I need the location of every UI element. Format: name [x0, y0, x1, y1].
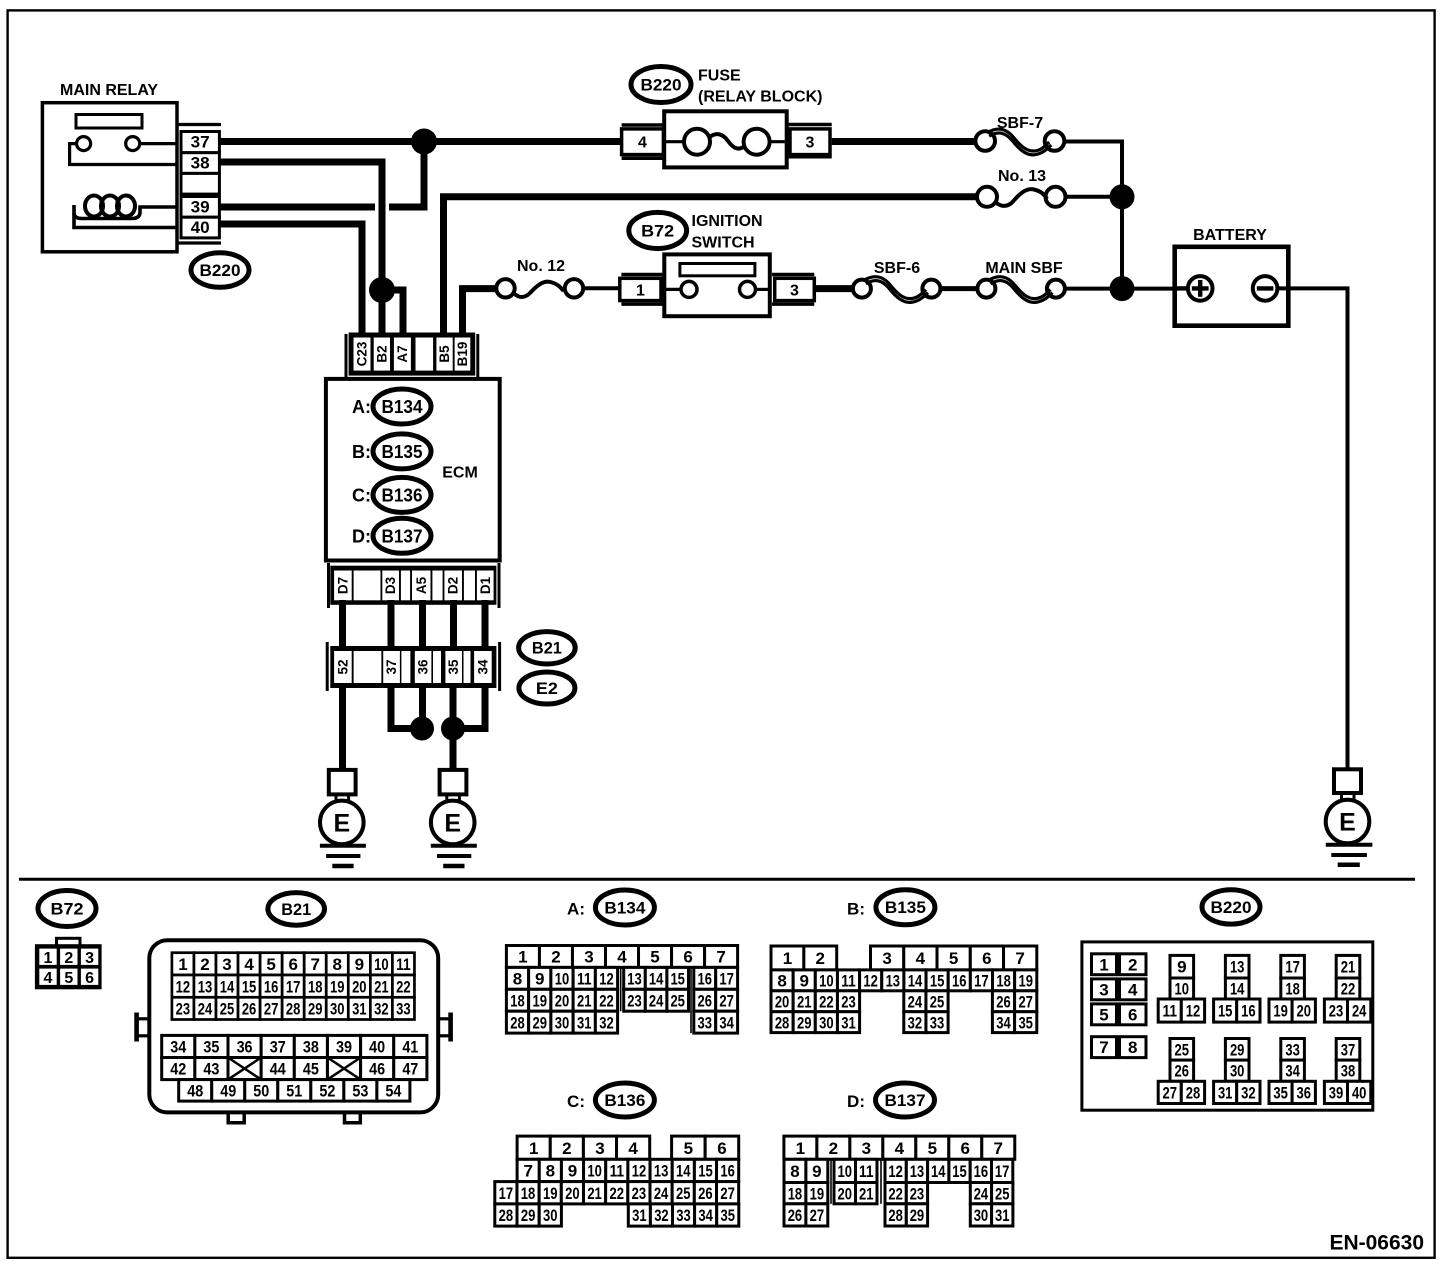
svg-text:25: 25: [1175, 1040, 1190, 1059]
connector B137 pin grid: [784, 1136, 817, 1159]
svg-text:3: 3: [1099, 980, 1108, 999]
svg-text:MAIN SBF: MAIN SBF: [985, 260, 1063, 277]
svg-text:16: 16: [974, 1162, 989, 1181]
wire pin37 to fuse 4: [219, 138, 623, 145]
svg-text:5: 5: [1099, 1005, 1108, 1024]
svg-text:34: 34: [719, 1013, 734, 1032]
ECM pin D2: [444, 571, 462, 601]
junction node No.13 / battery feed: [1110, 184, 1135, 209]
svg-text:18: 18: [1285, 980, 1300, 999]
svg-text:47: 47: [402, 1060, 418, 1079]
svg-text:A:: A:: [352, 397, 371, 417]
svg-text:25: 25: [670, 991, 685, 1010]
svg-text:23: 23: [632, 1184, 647, 1203]
connector E2 oval: [519, 672, 575, 704]
fuse terminal 3: [788, 123, 831, 127]
ECM pin blank: [416, 338, 434, 371]
ECM top connector body: [350, 334, 475, 375]
svg-text:10: 10: [1175, 980, 1190, 999]
svg-text:34: 34: [996, 1013, 1011, 1032]
svg-text:3: 3: [882, 949, 891, 968]
connector B21 bottom tabs: [228, 1112, 244, 1123]
svg-text:19: 19: [330, 977, 345, 996]
svg-text:7: 7: [1015, 949, 1024, 968]
relay blank pin cell: [181, 173, 219, 194]
svg-text:29: 29: [308, 1000, 323, 1019]
svg-text:13: 13: [627, 969, 642, 988]
svg-text:38: 38: [191, 154, 210, 173]
svg-text:B134: B134: [604, 899, 646, 917]
svg-text:27: 27: [264, 1000, 279, 1019]
svg-text:6: 6: [961, 1139, 970, 1158]
svg-text:34: 34: [1285, 1062, 1300, 1081]
svg-text:18: 18: [996, 971, 1011, 990]
svg-text:29: 29: [910, 1206, 925, 1225]
svg-text:17: 17: [499, 1184, 514, 1203]
svg-text:50: 50: [253, 1081, 269, 1100]
svg-text:D3: D3: [383, 576, 398, 594]
svg-text:11: 11: [841, 971, 856, 990]
svg-text:37: 37: [191, 133, 210, 152]
svg-text:11: 11: [610, 1162, 625, 1181]
ECM pin D7: [334, 571, 352, 601]
connector B72 tab: [57, 938, 81, 946]
relay contact right: [126, 137, 140, 151]
ground bus junction node 2: [441, 717, 465, 741]
svg-text:24: 24: [198, 1000, 213, 1019]
connector B134 pin grid: [506, 946, 539, 968]
ECM pin D1: [477, 571, 494, 601]
svg-text:4: 4: [1128, 980, 1138, 999]
svg-text:29: 29: [521, 1206, 536, 1225]
svg-text:5: 5: [949, 949, 958, 968]
connector B220 fuse clusters: [1170, 955, 1194, 978]
svg-text:33: 33: [676, 1206, 691, 1225]
ground E (battery): [1334, 769, 1361, 793]
svg-text:28: 28: [286, 1000, 301, 1019]
svg-text:2: 2: [562, 1139, 571, 1158]
svg-text:11: 11: [396, 955, 411, 974]
wire fuse 3 to SBF-7: [832, 138, 975, 145]
svg-text:17: 17: [995, 1162, 1010, 1181]
svg-text:B220: B220: [1211, 898, 1252, 917]
wire 35 to ground: [450, 683, 457, 770]
svg-text:33: 33: [396, 1000, 411, 1019]
svg-text:B:: B:: [847, 899, 865, 918]
svg-text:29: 29: [797, 1013, 812, 1032]
svg-text:23: 23: [627, 991, 642, 1010]
svg-text:32: 32: [1241, 1083, 1256, 1102]
body connector pin 52: [334, 651, 352, 683]
svg-text:35: 35: [203, 1038, 219, 1057]
svg-text:7: 7: [1099, 1038, 1108, 1057]
svg-text:16: 16: [720, 1162, 735, 1181]
svg-text:21: 21: [859, 1184, 874, 1203]
svg-text:SBF-6: SBF-6: [874, 260, 920, 277]
svg-text:4: 4: [638, 135, 647, 152]
body connector pin blank: [401, 651, 410, 683]
svg-text:31: 31: [352, 1000, 367, 1019]
svg-text:16: 16: [952, 971, 967, 990]
ECM pin A5: [412, 571, 431, 601]
svg-text:4: 4: [916, 949, 926, 968]
wire ECM B19 to fuse No.12: [463, 289, 497, 340]
svg-text:17: 17: [719, 969, 734, 988]
svg-text:32: 32: [374, 1000, 389, 1019]
svg-text:10: 10: [555, 969, 570, 988]
svg-text:24: 24: [974, 1184, 989, 1203]
svg-text:D7: D7: [335, 577, 350, 594]
ground E (ECM 35): [440, 770, 467, 795]
relay coil L1: [85, 196, 103, 217]
svg-text:38: 38: [303, 1038, 319, 1057]
svg-text:23: 23: [1329, 1002, 1344, 1021]
svg-text:25: 25: [995, 1184, 1010, 1203]
wire SBF-7 to battery node: [1064, 142, 1122, 283]
svg-text:22: 22: [396, 977, 411, 996]
svg-text:40: 40: [1352, 1083, 1367, 1102]
svg-text:31: 31: [577, 1013, 592, 1032]
body connector pin blank: [464, 651, 471, 683]
ECM pin C23: [354, 338, 371, 371]
svg-text:25: 25: [930, 992, 945, 1011]
svg-text:E2: E2: [536, 680, 558, 698]
svg-text:9: 9: [1177, 958, 1186, 977]
svg-text:12: 12: [599, 969, 614, 988]
connector B72 view oval: [38, 891, 96, 927]
svg-text:37: 37: [384, 659, 399, 674]
svg-text:30: 30: [1230, 1062, 1245, 1081]
wire node to ECM B2: [379, 290, 386, 340]
wire pin39: [219, 204, 375, 211]
svg-text:20: 20: [1297, 1002, 1312, 1021]
svg-text:10: 10: [587, 1162, 602, 1181]
ECM pin blank: [354, 571, 381, 601]
svg-text:D2: D2: [446, 577, 461, 594]
wire A5 to 36: [419, 600, 426, 651]
svg-text:27: 27: [720, 1184, 735, 1203]
svg-text:MAIN RELAY: MAIN RELAY: [60, 82, 158, 99]
svg-text:1: 1: [518, 948, 527, 967]
svg-text:B136: B136: [604, 1092, 645, 1110]
svg-text:4: 4: [895, 1139, 905, 1158]
svg-text:30: 30: [819, 1013, 834, 1032]
ignition switch box: [664, 254, 770, 316]
svg-text:39: 39: [1329, 1083, 1344, 1102]
ECM pin B2: [374, 338, 390, 371]
svg-text:13: 13: [198, 977, 213, 996]
svg-text:14: 14: [649, 969, 664, 988]
svg-text:28: 28: [1186, 1083, 1201, 1102]
svg-text:20: 20: [775, 992, 790, 1011]
svg-text:36: 36: [1297, 1083, 1312, 1102]
svg-text:26: 26: [242, 1000, 257, 1019]
svg-text:16: 16: [1241, 1002, 1256, 1021]
svg-text:3: 3: [222, 955, 231, 974]
svg-text:B137: B137: [885, 1092, 926, 1110]
svg-text:B19: B19: [455, 342, 470, 367]
svg-text:14: 14: [931, 1162, 946, 1181]
svg-text:2: 2: [64, 950, 73, 967]
svg-text:8: 8: [333, 955, 342, 974]
svg-text:9: 9: [799, 971, 808, 990]
svg-text:21: 21: [374, 977, 389, 996]
svg-text:32: 32: [908, 1013, 923, 1032]
ECM pin B5: [436, 338, 452, 371]
svg-text:39: 39: [336, 1038, 352, 1057]
svg-text:4: 4: [244, 955, 254, 974]
connector B220 housing: [1082, 942, 1373, 1110]
svg-text:18: 18: [510, 991, 525, 1010]
wire battery negative to ground: [1277, 288, 1347, 769]
relay pin 38: [181, 153, 219, 174]
svg-text:19: 19: [543, 1184, 558, 1203]
svg-text:12: 12: [176, 977, 191, 996]
svg-text:B137: B137: [382, 526, 423, 546]
svg-text:26: 26: [788, 1206, 803, 1225]
ECM bottom connector bracket: [327, 563, 330, 608]
svg-text:3: 3: [790, 282, 799, 299]
svg-text:C23: C23: [355, 341, 370, 366]
svg-text:2: 2: [829, 1139, 838, 1158]
svg-text:3: 3: [85, 950, 94, 967]
svg-text:27: 27: [1018, 992, 1033, 1011]
svg-text:30: 30: [555, 1013, 570, 1032]
svg-text:8: 8: [777, 971, 786, 990]
svg-text:13: 13: [910, 1162, 925, 1181]
svg-text:7: 7: [310, 955, 319, 974]
svg-text:10: 10: [374, 955, 389, 974]
svg-text:16: 16: [264, 977, 279, 996]
wire 36 to ground bus: [419, 683, 426, 729]
svg-text:ECM: ECM: [442, 464, 478, 481]
svg-text:No. 12: No. 12: [517, 258, 565, 275]
battery box: [1175, 247, 1289, 326]
svg-text:15: 15: [242, 977, 257, 996]
body connector pin 35: [445, 651, 462, 683]
svg-text:37: 37: [1341, 1040, 1356, 1059]
svg-text:42: 42: [170, 1060, 186, 1079]
svg-text:B135: B135: [885, 899, 926, 917]
svg-text:10: 10: [838, 1162, 853, 1181]
svg-text:26: 26: [1175, 1062, 1190, 1081]
relay contact left: [77, 137, 91, 151]
svg-text:18: 18: [308, 977, 323, 996]
wire MAIN SBF to battery: [1065, 287, 1175, 291]
svg-text:B220: B220: [641, 76, 682, 95]
svg-text:28: 28: [499, 1206, 514, 1225]
svg-text:52: 52: [319, 1081, 335, 1100]
svg-text:2: 2: [551, 948, 560, 967]
svg-text:34: 34: [475, 659, 490, 675]
body connector pin blank: [433, 651, 441, 683]
svg-text:A5: A5: [414, 576, 429, 594]
junction node B2/A7: [369, 277, 395, 303]
connector B220 oval at fuse: [631, 67, 691, 103]
connector B21 oval: [519, 632, 576, 664]
svg-text:36: 36: [416, 659, 431, 675]
svg-text:13: 13: [654, 1162, 669, 1181]
svg-text:22: 22: [1341, 980, 1356, 999]
relay coil lower wire: [74, 213, 177, 228]
svg-text:19: 19: [1273, 1002, 1288, 1021]
svg-text:5: 5: [650, 948, 659, 967]
connector B136 pin grid: [517, 1136, 550, 1159]
svg-text:17: 17: [974, 971, 989, 990]
svg-text:19: 19: [1018, 971, 1033, 990]
svg-text:D:: D:: [847, 1092, 865, 1111]
connector B21 pin grid middle: [162, 1035, 195, 1057]
svg-text:8: 8: [1128, 1038, 1137, 1057]
svg-text:33: 33: [930, 1013, 945, 1032]
connector B72 pin grid: [36, 945, 101, 988]
relay pin 39: [181, 197, 219, 218]
body connector pin 34: [474, 651, 492, 683]
svg-text:1: 1: [636, 282, 645, 299]
svg-text:3: 3: [584, 948, 593, 967]
svg-text:17: 17: [286, 977, 301, 996]
ignition switch key slot: [680, 264, 755, 276]
svg-text:D:: D:: [352, 526, 371, 546]
svg-text:9: 9: [568, 1162, 577, 1181]
svg-text:12: 12: [632, 1162, 647, 1181]
svg-text:B:: B:: [352, 442, 371, 462]
relay armature bar: [76, 115, 142, 129]
wire pin40 to ECM C23: [219, 224, 362, 340]
svg-text:1: 1: [796, 1139, 805, 1158]
svg-text:9: 9: [812, 1162, 821, 1181]
svg-text:35: 35: [1273, 1083, 1288, 1102]
svg-text:SWITCH: SWITCH: [692, 235, 755, 252]
svg-text:18: 18: [521, 1184, 536, 1203]
svg-text:39: 39: [191, 198, 210, 217]
svg-text:14: 14: [908, 971, 923, 990]
svg-text:30: 30: [330, 1000, 345, 1019]
svg-text:44: 44: [270, 1060, 286, 1079]
svg-text:20: 20: [565, 1184, 580, 1203]
svg-text:27: 27: [719, 991, 734, 1010]
connector B220 left pin pairs: [1092, 954, 1117, 975]
svg-text:40: 40: [369, 1038, 385, 1057]
svg-text:46: 46: [369, 1060, 385, 1079]
svg-text:28: 28: [510, 1013, 525, 1032]
svg-text:43: 43: [203, 1060, 219, 1079]
battery negative terminal: [1253, 276, 1278, 301]
svg-text:18: 18: [788, 1184, 803, 1203]
svg-text:21: 21: [587, 1184, 602, 1203]
svg-text:14: 14: [1230, 980, 1245, 999]
svg-text:32: 32: [599, 1013, 614, 1032]
wire D3 to 37: [388, 600, 395, 651]
svg-text:6: 6: [683, 948, 692, 967]
connector B21 housing: [149, 940, 438, 1112]
ECM bottom connector body: [331, 567, 495, 604]
svg-text:26: 26: [698, 1184, 713, 1203]
svg-text:B72: B72: [51, 900, 84, 919]
ECM pin D3: [382, 571, 399, 601]
svg-text:17: 17: [1285, 958, 1300, 977]
main relay box: [42, 103, 177, 252]
wire D2 to 35: [450, 600, 457, 651]
svg-text:4: 4: [617, 948, 627, 967]
svg-text:1: 1: [783, 949, 792, 968]
svg-text:C:: C:: [352, 486, 371, 506]
svg-text:1: 1: [529, 1139, 538, 1158]
svg-text:8: 8: [513, 969, 522, 988]
svg-text:8: 8: [546, 1162, 555, 1181]
svg-text:11: 11: [577, 969, 592, 988]
svg-text:A:: A:: [567, 899, 585, 918]
svg-text:20: 20: [352, 977, 367, 996]
svg-text:7: 7: [523, 1162, 532, 1181]
svg-text:7: 7: [994, 1139, 1003, 1158]
junction node on wire 37: [411, 129, 437, 155]
svg-text:34: 34: [170, 1038, 186, 1057]
fuse terminal 4: [622, 123, 664, 127]
svg-text:31: 31: [1218, 1083, 1233, 1102]
svg-text:19: 19: [810, 1184, 825, 1203]
svg-text:D1: D1: [478, 576, 493, 594]
connector B21 pin grid top: [172, 953, 194, 975]
svg-text:19: 19: [533, 991, 548, 1010]
svg-text:40: 40: [191, 218, 210, 237]
connector B220 oval under relay: [191, 253, 249, 288]
svg-text:2: 2: [1128, 955, 1137, 974]
svg-text:13: 13: [1230, 958, 1245, 977]
svg-text:8: 8: [790, 1162, 799, 1181]
svg-text:5: 5: [266, 955, 275, 974]
svg-text:34: 34: [698, 1206, 713, 1225]
svg-text:No. 13: No. 13: [998, 168, 1046, 185]
svg-text:35: 35: [1018, 1013, 1033, 1032]
ground E (ECM 52): [329, 770, 356, 795]
svg-text:53: 53: [352, 1081, 368, 1100]
svg-text:28: 28: [888, 1206, 903, 1225]
wire No.13 to battery node: [1066, 195, 1123, 199]
svg-text:30: 30: [974, 1206, 989, 1225]
wire No.12 to ignition switch 1: [583, 286, 620, 290]
svg-text:B134: B134: [382, 397, 423, 417]
svg-text:6: 6: [85, 970, 94, 987]
body connector pin blank: [354, 651, 382, 683]
wire node to ECM A7: [382, 290, 403, 340]
svg-text:30: 30: [543, 1206, 558, 1225]
svg-text:2: 2: [200, 955, 209, 974]
fuse box: [664, 111, 787, 167]
connector B21 right tab: [437, 1017, 451, 1020]
junction node battery feed: [1110, 276, 1135, 301]
svg-text:20: 20: [555, 991, 570, 1010]
svg-text:B220: B220: [200, 261, 241, 280]
svg-text:35: 35: [721, 1206, 736, 1225]
wire D7 to 52: [339, 600, 346, 651]
svg-text:EN-06630: EN-06630: [1329, 1232, 1424, 1255]
svg-text:51: 51: [286, 1081, 302, 1100]
svg-text:IGNITION: IGNITION: [692, 213, 763, 230]
svg-text:52: 52: [335, 659, 350, 674]
ECM box: [326, 379, 500, 561]
svg-text:23: 23: [910, 1184, 925, 1203]
svg-text:BATTERY: BATTERY: [1193, 227, 1267, 244]
svg-text:22: 22: [819, 992, 834, 1011]
svg-text:27: 27: [1163, 1083, 1178, 1102]
body connector bracket: [326, 642, 329, 691]
ignition switch contacts: [681, 281, 697, 297]
body connector pin 36: [415, 651, 432, 683]
svg-text:22: 22: [609, 1184, 624, 1203]
connector B21 view oval: [268, 893, 325, 926]
relay connector bracket B220: [177, 123, 221, 126]
